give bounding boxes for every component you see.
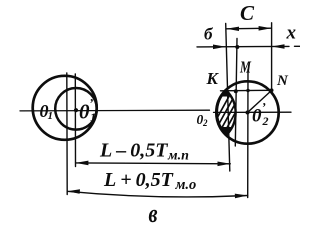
lens hatched intersection region bbox=[196, 84, 264, 172]
dimension L-0.5T right arrow bbox=[218, 162, 231, 167]
svg-text:L + 0,5T: L + 0,5T bbox=[103, 169, 174, 191]
svg-text:1: 1 bbox=[90, 110, 96, 124]
svg-text:м.о: м.о bbox=[175, 177, 197, 193]
circle O1 big (left hole contour) bbox=[33, 76, 97, 140]
node O'2 center dot bbox=[246, 111, 250, 115]
svg-text:’: ’ bbox=[262, 100, 266, 115]
dimension C left arrow bbox=[226, 27, 239, 31]
svg-text:K: K bbox=[206, 69, 220, 88]
svg-text:2: 2 bbox=[202, 118, 208, 128]
svg-text:M: M bbox=[239, 58, 251, 77]
node O'1 center dot bbox=[74, 108, 78, 112]
svg-text:в: в bbox=[149, 199, 158, 225]
node dot on chord at vertical B bbox=[234, 89, 238, 93]
node N dot bbox=[270, 88, 274, 92]
centerline horizontal left figure to right figure bbox=[20, 109, 210, 112]
circle O'2 main (right hole contour) bbox=[216, 81, 278, 143]
centerline horizontal right figure bbox=[214, 111, 292, 113]
svg-text:1: 1 bbox=[48, 110, 54, 122]
dimension L+0.5T line bbox=[67, 191, 247, 197]
dimension b/x line bbox=[197, 45, 289, 48]
svg-text:0: 0 bbox=[252, 106, 262, 127]
dimension b/x dash segment right bbox=[295, 45, 301, 47]
dimension C right arrow bbox=[259, 26, 272, 31]
svg-text:м.п: м.п bbox=[167, 149, 189, 164]
extension line through O'1 (vertical B left) bbox=[74, 74, 76, 167]
node dot on b/x line at vertical B bbox=[235, 45, 239, 49]
dimension C line bbox=[226, 27, 271, 30]
svg-text:’: ’ bbox=[89, 96, 93, 111]
dimension b arrow (points right, tip at K line) bbox=[213, 45, 226, 50]
centerline vertical M through O'2 bbox=[247, 70, 249, 198]
svg-text:2: 2 bbox=[262, 114, 269, 128]
node K dot bbox=[224, 89, 228, 93]
extension line N vertical bbox=[271, 23, 273, 91]
extension line through O1 (vertical A left) bbox=[66, 73, 68, 195]
lens bottom dark tip bbox=[218, 127, 238, 138]
extension line K vertical bbox=[226, 24, 230, 172]
dimension x arrow (points left, tip at N line) bbox=[272, 44, 285, 49]
svg-text:C: C bbox=[240, 1, 255, 25]
svg-text:L – 0,5T: L – 0,5T bbox=[99, 140, 168, 162]
dimension L+0.5T left arrow bbox=[67, 189, 80, 194]
radius line O'2 to N bbox=[248, 90, 272, 112]
dimension L-0.5T left arrow bbox=[76, 161, 89, 166]
svg-text:N: N bbox=[276, 73, 289, 89]
circle O'1 small bbox=[55, 88, 97, 130]
extension line B vertical (dot line) bbox=[235, 39, 237, 147]
svg-text:x: x bbox=[286, 23, 297, 44]
dimension L-0.5T line bbox=[76, 162, 231, 165]
svg-text:б: б bbox=[204, 25, 214, 44]
node M dot on chord bbox=[246, 89, 249, 92]
lens top dark tip bbox=[218, 84, 238, 97]
dimension L+0.5T right arrow bbox=[235, 194, 248, 199]
chord K-M-N bbox=[221, 89, 272, 92]
